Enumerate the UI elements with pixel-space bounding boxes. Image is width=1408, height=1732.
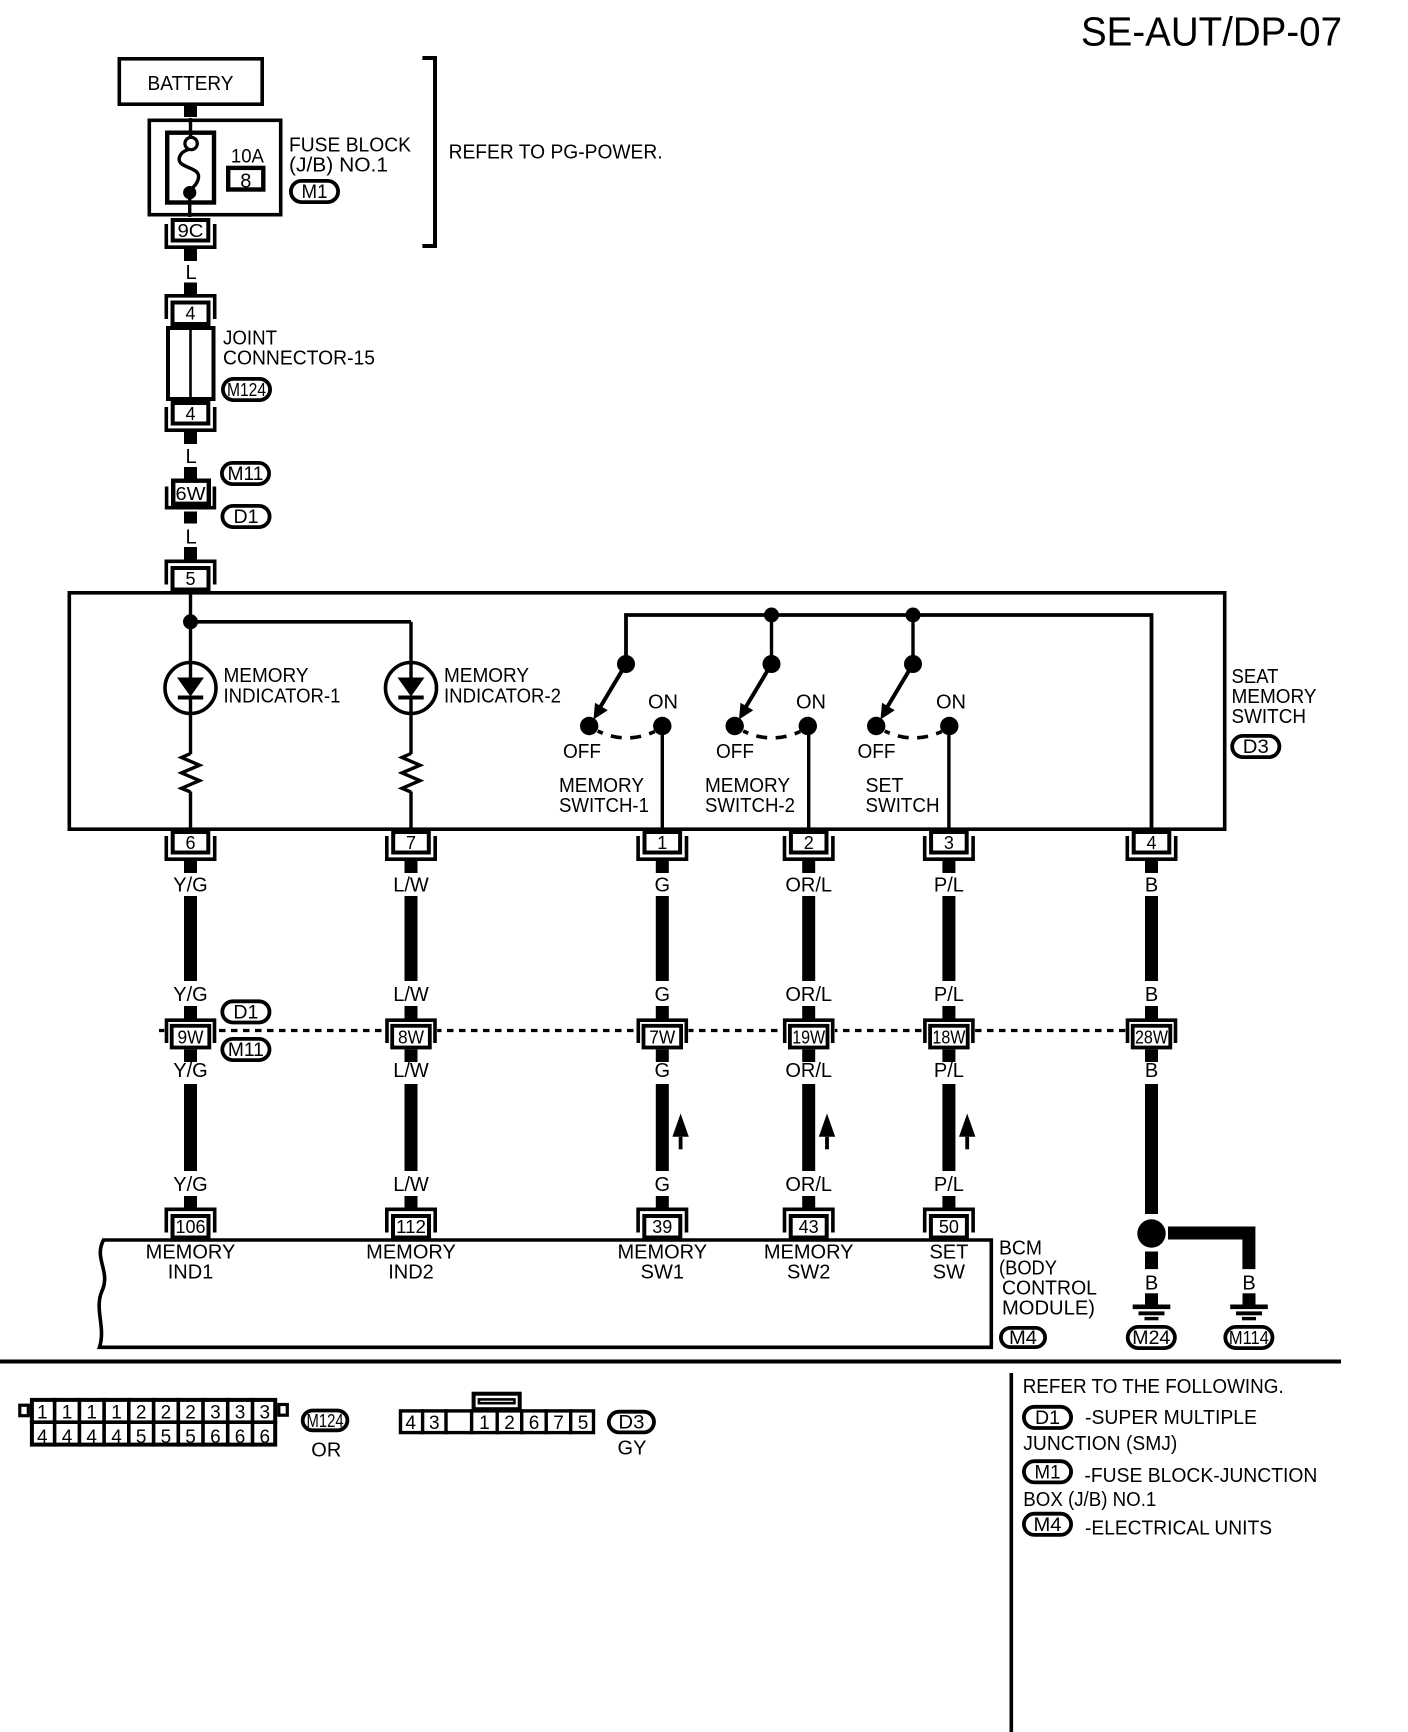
svg-text:D3: D3 — [1243, 737, 1269, 758]
connector pin 5 (seat memory switch) — [166, 548, 214, 590]
connector D3 oval — [1232, 736, 1279, 758]
fuse block (J/B) no.1 M1 box — [149, 120, 280, 214]
BCM pin label MEMORY IND1 — [146, 1242, 236, 1284]
wire L/W segment upper — [405, 896, 418, 981]
SMJ connector 8W — [385, 1006, 437, 1062]
wire B segment to ground junction — [1145, 1084, 1158, 1214]
svg-text:M124: M124 — [307, 1411, 344, 1431]
svg-text:5: 5 — [185, 1427, 196, 1448]
svg-text:7: 7 — [406, 833, 416, 853]
connector D1 oval (legend) — [1024, 1407, 1071, 1429]
wire OR/L segment lower — [802, 1084, 815, 1171]
svg-text:CONTROL: CONTROL — [1002, 1278, 1097, 1300]
svg-text:-ELECTRICAL UNITS: -ELECTRICAL UNITS — [1085, 1518, 1272, 1540]
svg-text:-SUPER MULTIPLE: -SUPER MULTIPLE — [1085, 1407, 1257, 1429]
svg-text:OR/L: OR/L — [785, 1060, 832, 1082]
svg-text:6: 6 — [210, 1427, 221, 1448]
connector M4 oval (legend) — [1024, 1514, 1071, 1536]
svg-text:SWITCH-1: SWITCH-1 — [559, 795, 649, 817]
svg-text:4: 4 — [37, 1427, 48, 1448]
svg-text:Y/G: Y/G — [173, 875, 207, 897]
wire P/L segment upper — [942, 896, 955, 981]
BCM pin 112 — [387, 1196, 435, 1238]
label MEMORY INDICATOR-1 — [224, 665, 341, 708]
svg-text:D3: D3 — [618, 1413, 644, 1434]
footer separator line — [0, 1360, 1341, 1364]
svg-text:2: 2 — [804, 833, 814, 853]
wire sw1 ON to pin 1 — [661, 730, 664, 830]
svg-text:112: 112 — [396, 1217, 426, 1237]
svg-text:SWITCH: SWITCH — [866, 795, 940, 817]
footer connector M124 pin grid — [20, 1398, 288, 1448]
svg-text:BATTERY: BATTERY — [148, 73, 234, 95]
svg-text:M11: M11 — [228, 464, 264, 485]
label BCM (BODY CONTROL MODULE) — [999, 1238, 1097, 1320]
direction arrow — [819, 1114, 835, 1150]
svg-text:4: 4 — [62, 1427, 73, 1448]
svg-text:3: 3 — [944, 833, 954, 853]
svg-text:CONNECTOR-15: CONNECTOR-15 — [223, 348, 375, 370]
svg-text:REFER TO THE FOLLOWING.: REFER TO THE FOLLOWING. — [1023, 1376, 1284, 1398]
svg-text:6: 6 — [185, 833, 195, 853]
svg-text:ON: ON — [648, 692, 678, 714]
svg-text:M4: M4 — [1034, 1515, 1062, 1536]
SMJ dashed line D1/M11 — [159, 1029, 1137, 1032]
svg-text:50: 50 — [939, 1217, 959, 1237]
svg-text:JUNCTION (SMJ): JUNCTION (SMJ) — [1023, 1433, 1177, 1455]
svg-text:Y/G: Y/G — [173, 984, 207, 1006]
svg-text:BCM: BCM — [999, 1238, 1042, 1260]
connector M11 oval — [222, 463, 269, 485]
svg-text:19W: 19W — [792, 1028, 825, 1048]
svg-text:MEMORY: MEMORY — [559, 775, 644, 797]
bus junction node sw2 — [764, 608, 779, 623]
svg-text:2: 2 — [504, 1413, 515, 1434]
label -FUSE BLOCK-JUNCTION BOX (J/B) NO.1 — [1023, 1465, 1317, 1511]
svg-text:43: 43 — [799, 1217, 819, 1237]
SMJ connector 18W — [923, 1006, 975, 1062]
pin 7 seat memory switch — [387, 832, 435, 873]
svg-text:(J/B) NO.1: (J/B) NO.1 — [289, 155, 388, 177]
svg-text:M124: M124 — [227, 380, 266, 400]
wire feed to indicator-2 — [191, 620, 412, 624]
bracket refer to pg-power — [422, 58, 435, 246]
svg-text:4: 4 — [86, 1427, 97, 1448]
svg-text:REFER TO PG-POWER.: REFER TO PG-POWER. — [449, 141, 663, 164]
svg-text:1: 1 — [86, 1403, 97, 1424]
svg-text:L/W: L/W — [393, 875, 429, 897]
svg-text:MEMORY: MEMORY — [444, 665, 529, 687]
svg-text:OFF: OFF — [858, 741, 896, 763]
wire Y/G segment lower — [184, 1084, 197, 1171]
BCM pin 50 — [925, 1196, 973, 1238]
svg-text:2: 2 — [136, 1403, 147, 1424]
SMJ connector 19W — [783, 1006, 835, 1062]
ground symbol M24 — [1133, 1305, 1171, 1321]
footer vertical divider — [1010, 1373, 1014, 1732]
connector M114 oval — [1225, 1327, 1272, 1348]
svg-text:-FUSE BLOCK-JUNCTION: -FUSE BLOCK-JUNCTION — [1084, 1465, 1317, 1487]
svg-text:OFF: OFF — [563, 741, 601, 763]
svg-text:4: 4 — [111, 1427, 122, 1448]
svg-text:OR: OR — [311, 1440, 341, 1462]
svg-text:D1: D1 — [234, 507, 259, 528]
svg-text:M24: M24 — [1132, 1328, 1170, 1349]
svg-text:IND2: IND2 — [388, 1262, 434, 1284]
resistor R2 — [402, 754, 420, 793]
wire stub M24 ground — [1145, 1293, 1158, 1305]
wire sw2 ON to pin 2 — [807, 730, 810, 830]
svg-text:8W: 8W — [398, 1028, 424, 1048]
svg-text:2: 2 — [185, 1403, 196, 1424]
svg-text:IND1: IND1 — [168, 1262, 214, 1284]
svg-text:ON: ON — [796, 692, 826, 714]
svg-text:(BODY: (BODY — [999, 1258, 1057, 1280]
connector D1 oval — [222, 506, 269, 528]
connector M1 oval — [291, 181, 338, 203]
svg-text:L/W: L/W — [393, 1174, 429, 1196]
switch common bus wire — [626, 615, 1152, 830]
label MEMORY SWITCH-1 — [559, 775, 649, 817]
footer connector D3 pin row — [401, 1394, 594, 1435]
connector M124 oval (footer) — [303, 1411, 348, 1431]
pin 3 seat memory switch — [925, 832, 973, 873]
svg-text:1: 1 — [479, 1413, 490, 1434]
svg-text:5: 5 — [578, 1413, 589, 1434]
svg-text:1: 1 — [62, 1403, 73, 1424]
svg-text:L: L — [185, 527, 196, 549]
svg-text:6: 6 — [260, 1427, 271, 1448]
resistor R1 — [182, 754, 200, 793]
BCM pin label MEMORY SW2 — [764, 1242, 854, 1284]
svg-text:3: 3 — [429, 1413, 440, 1434]
wire stub into seat memory switch — [184, 547, 197, 559]
svg-text:L/W: L/W — [393, 1060, 429, 1082]
svg-text:L/W: L/W — [393, 984, 429, 1006]
pin 4 seat memory switch — [1127, 832, 1175, 873]
svg-text:SWITCH: SWITCH — [1232, 706, 1307, 728]
svg-text:B: B — [1145, 1273, 1158, 1295]
svg-text:SW: SW — [933, 1262, 965, 1284]
svg-text:MODULE): MODULE) — [1002, 1298, 1095, 1320]
wire LED2 to resistor — [409, 713, 412, 754]
svg-text:P/L: P/L — [934, 1060, 964, 1082]
svg-text:8: 8 — [240, 171, 251, 193]
svg-text:4: 4 — [185, 304, 195, 324]
pin 6 seat memory switch — [166, 832, 214, 873]
svg-text:MEMORY: MEMORY — [146, 1242, 236, 1264]
battery — [119, 59, 262, 104]
wire stub into 6W — [184, 467, 197, 479]
BCM pin label MEMORY IND2 — [366, 1242, 456, 1284]
svg-text:MEMORY: MEMORY — [224, 665, 309, 687]
connector M11 oval (SMJ row) — [222, 1039, 269, 1061]
svg-text:BOX (J/B) NO.1: BOX (J/B) NO.1 — [1023, 1489, 1156, 1511]
svg-text:B: B — [1145, 1060, 1158, 1082]
svg-text:4: 4 — [185, 404, 195, 424]
wire bus to sw3 pivot — [911, 615, 914, 663]
svg-text:FUSE BLOCK: FUSE BLOCK — [289, 135, 412, 157]
label SET SWITCH — [866, 775, 940, 817]
svg-text:Y/G: Y/G — [173, 1174, 207, 1196]
memory switch-1 — [580, 655, 672, 738]
svg-text:JOINT: JOINT — [223, 328, 277, 350]
svg-text:5: 5 — [161, 1427, 172, 1448]
svg-text:G: G — [655, 1174, 671, 1196]
svg-text:MEMORY: MEMORY — [705, 775, 790, 797]
wire battery to fuse block — [184, 106, 197, 117]
wire stub M114 ground — [1243, 1293, 1256, 1305]
svg-text:MEMORY: MEMORY — [617, 1242, 707, 1264]
svg-text:ON: ON — [936, 692, 966, 714]
svg-text:M1: M1 — [302, 182, 328, 203]
pin 1 seat memory switch — [638, 832, 686, 873]
svg-text:1: 1 — [111, 1403, 122, 1424]
connector 4 (joint connector bottom) — [166, 403, 214, 444]
label -SUPER MULTIPLE JUNCTION (SMJ) — [1023, 1407, 1257, 1455]
svg-text:MEMORY: MEMORY — [1232, 686, 1317, 708]
svg-text:5: 5 — [136, 1427, 147, 1448]
svg-text:INDICATOR-1: INDICATOR-1 — [224, 686, 341, 708]
svg-text:OR/L: OR/L — [785, 984, 832, 1006]
wire P/L segment lower — [942, 1084, 955, 1171]
svg-text:4: 4 — [1146, 833, 1156, 853]
ground symbol M114 — [1230, 1305, 1268, 1321]
svg-text:G: G — [655, 1060, 671, 1082]
wire LED1 to resistor — [189, 713, 192, 754]
direction arrow — [672, 1114, 688, 1150]
svg-text:M11: M11 — [228, 1040, 264, 1061]
BCM pin 106 — [166, 1196, 214, 1238]
svg-text:INDICATOR-2: INDICATOR-2 — [444, 686, 561, 708]
svg-text:D1: D1 — [1035, 1408, 1060, 1429]
SMJ connector 28W — [1125, 1006, 1177, 1062]
wire resistor to pin 7 — [409, 792, 412, 831]
svg-text:6: 6 — [529, 1413, 540, 1434]
SMJ connector 9W — [164, 1006, 216, 1062]
LED memory indicator-2 — [386, 663, 437, 714]
seat memory switch box — [69, 593, 1224, 829]
connector 4 (joint connector top) — [166, 283, 214, 325]
svg-text:5: 5 — [185, 569, 195, 589]
connector 6W (M11/D1 pass-through) — [167, 481, 215, 524]
label JOINT CONNECTOR-15 — [223, 328, 375, 370]
BCM (body control module) box — [99, 1240, 991, 1347]
svg-text:MEMORY: MEMORY — [764, 1242, 854, 1264]
wire G segment lower — [656, 1084, 669, 1171]
svg-text:G: G — [655, 875, 671, 897]
svg-text:18W: 18W — [932, 1028, 965, 1048]
fuse number 8 box — [228, 168, 263, 193]
svg-text:B: B — [1242, 1273, 1255, 1295]
svg-text:9C: 9C — [178, 221, 204, 241]
svg-text:P/L: P/L — [934, 984, 964, 1006]
svg-text:SW2: SW2 — [787, 1262, 830, 1284]
pin 2 seat memory switch — [785, 832, 833, 873]
svg-text:6: 6 — [235, 1427, 246, 1448]
svg-text:L: L — [185, 262, 196, 284]
svg-text:3: 3 — [235, 1403, 246, 1424]
svg-text:7: 7 — [553, 1413, 564, 1434]
direction arrow — [959, 1114, 975, 1150]
wire resistor to pin 6 — [189, 792, 192, 831]
svg-text:3: 3 — [260, 1403, 271, 1424]
svg-text:106: 106 — [176, 1217, 206, 1237]
svg-text:SE-AUT/DP-07: SE-AUT/DP-07 — [1081, 9, 1342, 55]
svg-text:MEMORY: MEMORY — [366, 1242, 456, 1264]
set switch — [867, 655, 959, 738]
svg-text:P/L: P/L — [934, 1174, 964, 1196]
connector 9C — [166, 220, 214, 261]
svg-text:3: 3 — [210, 1403, 221, 1424]
svg-text:G: G — [655, 984, 671, 1006]
BCM pin 39 — [638, 1196, 686, 1238]
label FUSE BLOCK (J/B) NO.1 — [289, 135, 412, 177]
svg-text:OFF: OFF — [716, 741, 754, 763]
memory switch-2 — [726, 655, 818, 738]
svg-text:B: B — [1145, 984, 1158, 1006]
wire set ON to pin 3 — [947, 730, 950, 830]
junction node feed — [183, 614, 198, 629]
svg-text:L: L — [185, 446, 196, 468]
BCM pin 43 — [785, 1196, 833, 1238]
LED memory indicator-1 — [165, 663, 216, 714]
label MEMORY SWITCH-2 — [705, 775, 795, 817]
wire branch to M114 ground — [1168, 1233, 1249, 1269]
svg-text:28W: 28W — [1135, 1028, 1168, 1048]
label MEMORY INDICATOR-2 — [444, 665, 561, 708]
BCM pin label MEMORY SW1 — [617, 1242, 707, 1284]
joint connector-15 body — [168, 326, 214, 401]
svg-text:GY: GY — [618, 1438, 647, 1460]
SMJ connector 7W — [636, 1006, 688, 1062]
wire Y/G segment upper — [184, 896, 197, 981]
svg-text:OR/L: OR/L — [785, 875, 832, 897]
BCM pin label SET SW — [929, 1242, 968, 1284]
wire L/W segment lower — [405, 1084, 418, 1171]
bus junction node sw3 — [906, 608, 921, 623]
svg-text:4: 4 — [405, 1413, 416, 1434]
svg-text:6W: 6W — [176, 484, 206, 504]
connector D1 oval (SMJ row) — [222, 1001, 269, 1023]
wire stub into joint connector — [184, 283, 197, 295]
label SEAT MEMORY SWITCH — [1232, 666, 1317, 728]
svg-text:1: 1 — [37, 1403, 48, 1424]
svg-text:SET: SET — [929, 1242, 968, 1264]
wire OR/L segment upper — [802, 896, 815, 981]
wire to M24 ground — [1145, 1252, 1158, 1270]
svg-text:SEAT: SEAT — [1232, 666, 1279, 688]
svg-text:2: 2 — [161, 1403, 172, 1424]
wire pin5 feed down — [189, 591, 192, 663]
svg-text:P/L: P/L — [934, 875, 964, 897]
connector M24 oval — [1128, 1327, 1175, 1349]
svg-text:10A: 10A — [231, 147, 264, 168]
svg-text:Y/G: Y/G — [173, 1060, 207, 1082]
svg-text:SWITCH-2: SWITCH-2 — [705, 795, 795, 817]
svg-text:M4: M4 — [1009, 1328, 1037, 1349]
svg-text:SW1: SW1 — [641, 1262, 684, 1284]
svg-text:39: 39 — [652, 1217, 672, 1237]
fuse 10A symbol — [167, 118, 214, 217]
svg-text:M114: M114 — [1229, 1328, 1269, 1348]
svg-text:D1: D1 — [233, 1002, 258, 1023]
svg-text:B: B — [1145, 875, 1158, 897]
wire indicator-2 drop — [409, 622, 412, 663]
svg-text:7W: 7W — [649, 1028, 675, 1048]
svg-text:M1: M1 — [1035, 1462, 1061, 1483]
svg-text:OR/L: OR/L — [785, 1174, 832, 1196]
svg-text:1: 1 — [657, 833, 667, 853]
svg-text:9W: 9W — [178, 1028, 204, 1048]
connector M124 oval — [223, 379, 270, 400]
ground junction node — [1137, 1219, 1165, 1247]
connector M4 oval — [1001, 1328, 1045, 1349]
wire G segment upper — [656, 896, 669, 981]
connector M1 oval (legend) — [1024, 1461, 1071, 1483]
connector D3 oval (footer) — [609, 1412, 654, 1434]
wire B segment upper — [1145, 896, 1158, 981]
wire bus to sw2 pivot — [770, 615, 773, 663]
svg-text:SET: SET — [866, 775, 904, 797]
